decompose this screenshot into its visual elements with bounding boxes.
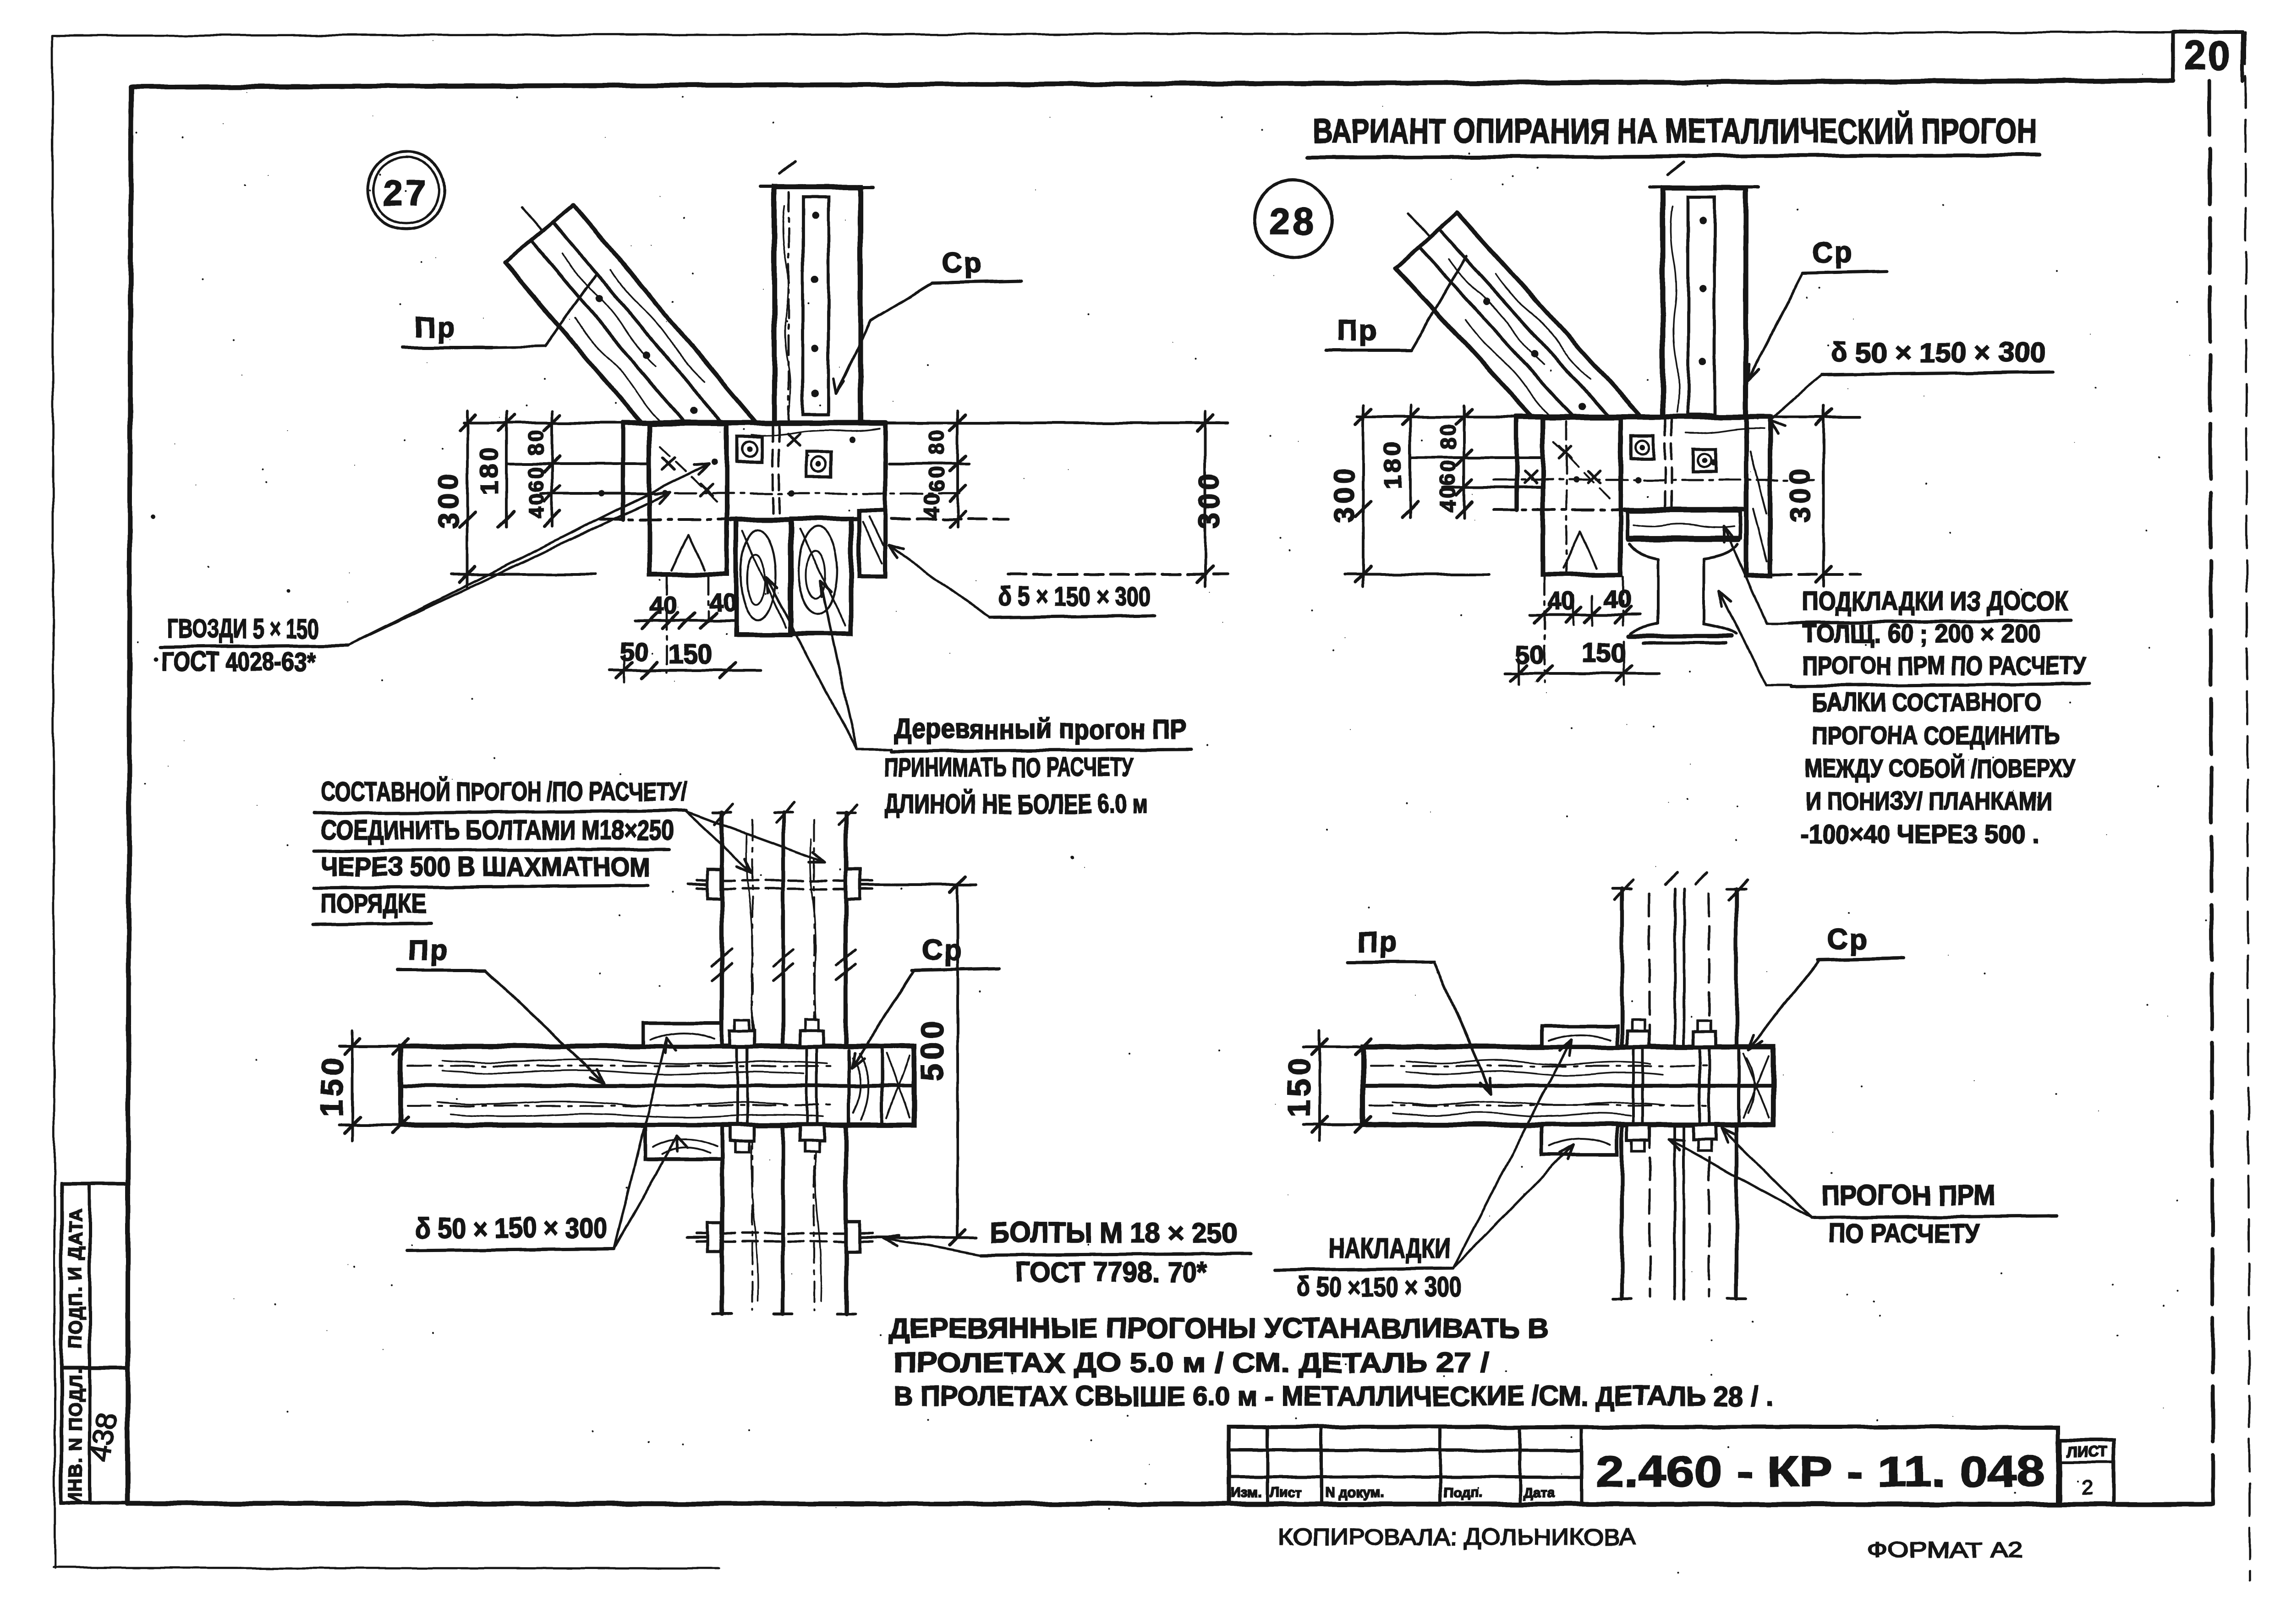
svg-text:Пр: Пр xyxy=(408,935,449,966)
svg-text:ПОРЯДКЕ: ПОРЯДКЕ xyxy=(321,889,426,919)
svg-text:300: 300 xyxy=(1194,470,1225,528)
svg-text:40: 40 xyxy=(1436,485,1460,512)
svg-text:В ПРОЛЕТАХ СВЫШЕ 6.0 м -: В ПРОЛЕТАХ СВЫШЕ 6.0 м - МЕТАЛЛИЧЕСКИЕ /… xyxy=(893,1381,1773,1411)
svg-text:δ 5 × 150 × 300: δ 5 × 150 × 300 xyxy=(999,582,1150,612)
svg-text:50: 50 xyxy=(619,637,648,666)
svg-text:δ 50 × 150 × 300: δ 50 × 150 × 300 xyxy=(1831,337,2046,368)
svg-text:60: 60 xyxy=(524,465,548,492)
svg-text:150: 150 xyxy=(1582,638,1626,668)
svg-text:Ср: Ср xyxy=(1812,237,1854,268)
svg-text:N докум.: N докум. xyxy=(1325,1485,1384,1500)
svg-text:300: 300 xyxy=(1329,465,1360,523)
svg-text:Ср: Ср xyxy=(1827,924,1869,956)
svg-text:δ 50 ×150 × 300: δ 50 ×150 × 300 xyxy=(1297,1272,1462,1302)
svg-text:40: 40 xyxy=(1604,585,1631,613)
svg-text:500: 500 xyxy=(915,1017,950,1080)
svg-text:Деревянный прогон ПР: Деревянный прогон ПР xyxy=(893,714,1187,744)
svg-text:ЧЕРЕЗ 500 В ШАХМАТНОМ: ЧЕРЕЗ 500 В ШАХМАТНОМ xyxy=(321,852,651,882)
svg-text:ГОСТ 4028-63*: ГОСТ 4028-63* xyxy=(161,647,315,677)
svg-text:БОЛТЫ М 18 × 250: БОЛТЫ М 18 × 250 xyxy=(990,1217,1237,1249)
svg-text:НАКЛАДКИ: НАКЛАДКИ xyxy=(1329,1233,1450,1263)
svg-text:Ср: Ср xyxy=(922,935,964,966)
svg-text:-100×40 ЧЕРЕЗ 500 .: -100×40 ЧЕРЕЗ 500 . xyxy=(1801,820,2039,848)
svg-text:δ 50 × 150 × 300: δ 50 × 150 × 300 xyxy=(415,1213,608,1244)
svg-text:СОСТАВНОЙ ПРОГОН /ПО РАСЧЕТУ/: СОСТАВНОЙ ПРОГОН /ПО РАСЧЕТУ/ xyxy=(321,777,687,807)
svg-text:Дата: Дата xyxy=(1523,1485,1555,1500)
svg-text:150: 150 xyxy=(315,1054,350,1117)
svg-text:Подп.: Подп. xyxy=(1443,1485,1482,1500)
svg-text:И ПОНИЗУ/ ПЛАНКАМИ: И ПОНИЗУ/ ПЛАНКАМИ xyxy=(1805,787,2053,815)
svg-text:ПРИНИМАТЬ ПО РАСЧЕТУ: ПРИНИМАТЬ ПО РАСЧЕТУ xyxy=(884,753,1135,782)
svg-text:2.460 - КР - 11. 048: 2.460 - КР - 11. 048 xyxy=(1595,1447,2044,1496)
svg-text:60: 60 xyxy=(925,465,948,492)
svg-text:40: 40 xyxy=(1548,587,1575,615)
svg-text:ФОРМАТ А2: ФОРМАТ А2 xyxy=(1867,1538,2023,1563)
svg-text:80: 80 xyxy=(524,428,548,455)
svg-text:40: 40 xyxy=(524,491,548,518)
svg-text:ЛИСТ: ЛИСТ xyxy=(2067,1444,2107,1460)
svg-text:Пр: Пр xyxy=(1357,927,1398,958)
svg-text:ПРОЛЕТАХ ДО 5.0 м / С: ПРОЛЕТАХ ДО 5.0 м / СМ. ДЕТАЛЬ 27 / xyxy=(893,1347,1489,1378)
svg-text:80: 80 xyxy=(1436,422,1460,449)
svg-text:ПРОГОНА СОЕДИНИТЬ: ПРОГОНА СОЕДИНИТЬ xyxy=(1812,721,2060,749)
svg-text:150: 150 xyxy=(1282,1054,1316,1117)
svg-text:27: 27 xyxy=(383,172,429,213)
svg-text:180: 180 xyxy=(476,445,503,494)
svg-text:Ср: Ср xyxy=(942,247,983,279)
svg-text:ПРОГОН ПРМ ПО РАСЧЕТУ: ПРОГОН ПРМ ПО РАСЧЕТУ xyxy=(1802,651,2087,680)
svg-text:СОЕДИНИТЬ БОЛТАМИ М18×250: СОЕДИНИТЬ БОЛТАМИ М18×250 xyxy=(321,815,674,845)
svg-text:ДЛИНОЙ НЕ БОЛЕЕ 6.0 м: ДЛИНОЙ НЕ БОЛЕЕ 6.0 м xyxy=(884,789,1148,819)
svg-text:ПОДП. И ДАТА: ПОДП. И ДАТА xyxy=(66,1208,86,1349)
svg-text:150: 150 xyxy=(668,640,713,669)
svg-text:2: 2 xyxy=(2082,1476,2093,1499)
svg-text:КОПИРОВАЛА: ДОЛЬНИКОВА: КОПИРОВАЛА: ДОЛЬНИКОВА xyxy=(1278,1524,1636,1550)
svg-text:40: 40 xyxy=(650,592,677,619)
svg-text:20: 20 xyxy=(2184,33,2231,77)
svg-text:Пр: Пр xyxy=(415,312,456,343)
svg-text:40: 40 xyxy=(919,491,943,518)
svg-text:180: 180 xyxy=(1379,439,1407,488)
svg-text:60: 60 xyxy=(1436,459,1460,486)
svg-text:ПОДКЛАДКИ ИЗ ДОСОК: ПОДКЛАДКИ ИЗ ДОСОК xyxy=(1802,586,2068,616)
svg-text:ТОЛЩ. 60 ; 200 × 200: ТОЛЩ. 60 ; 200 × 200 xyxy=(1802,619,2040,648)
svg-text:БАЛКИ СОСТАВНОГО: БАЛКИ СОСТАВНОГО xyxy=(1812,688,2041,716)
svg-text:28: 28 xyxy=(1270,201,1316,241)
svg-text:50: 50 xyxy=(1516,640,1544,669)
svg-text:80: 80 xyxy=(925,428,948,455)
svg-text:МЕЖДУ СОБОЙ /ПОВЕРХУ: МЕЖДУ СОБОЙ /ПОВЕРХУ xyxy=(1805,754,2076,782)
svg-text:Лист: Лист xyxy=(1269,1485,1302,1500)
svg-text:ИНВ. N ПОДЛ.: ИНВ. N ПОДЛ. xyxy=(66,1368,86,1505)
svg-text:ДЕРЕВЯННЫЕ ПРОГОНЫ: ДЕРЕВЯННЫЕ ПРОГОНЫ УСТАНАВЛИВАТЬ В xyxy=(889,1313,1549,1344)
svg-text:300: 300 xyxy=(433,470,465,528)
svg-text:ПО РАСЧЕТУ: ПО РАСЧЕТУ xyxy=(1828,1219,1980,1248)
svg-text:300: 300 xyxy=(1785,465,1816,523)
svg-text:ГВОЗДИ 5 × 150: ГВОЗДИ 5 × 150 xyxy=(167,614,318,644)
svg-text:Пр: Пр xyxy=(1337,315,1378,346)
svg-text:40: 40 xyxy=(709,589,737,617)
svg-text:ВАРИАНТ ОПИРАНИЯ НА МЕТАЛЛИЧЕС: ВАРИАНТ ОПИРАНИЯ НА МЕТАЛЛИЧЕСКИЙ ПРОГОН xyxy=(1313,111,2037,151)
svg-text:Изм.: Изм. xyxy=(1231,1485,1261,1500)
svg-text:ГОСТ 7798. 70*: ГОСТ 7798. 70* xyxy=(1015,1257,1208,1288)
svg-text:ПРОГОН ПРМ: ПРОГОН ПРМ xyxy=(1821,1180,1995,1211)
